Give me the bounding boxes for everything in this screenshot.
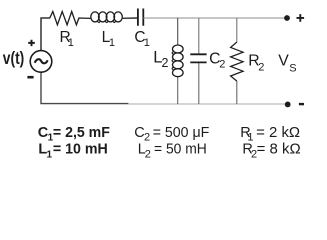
svg-text:V: V [278,53,289,70]
svg-text:= 50 mH: = 50 mH [154,142,207,158]
svg-text:= 2 kΩ: = 2 kΩ [256,125,300,141]
voltage source sine tilde [35,59,48,63]
value R2 = 8 kOhm [242,142,300,161]
node: + output terminal [284,15,290,21]
wire: L2 top stub [177,18,179,45]
value L2 = 50 mH [138,142,207,161]
minus sign at output [299,103,304,105]
wire: C2 bottom stub [198,62,200,104]
resistor R1 zigzag [50,12,91,25]
wire: left vertical top (source to top rail) [41,18,50,51]
inductor L2 coil [173,45,184,53]
svg-text:1: 1 [109,37,115,49]
label VS [278,53,296,75]
source minus sign [27,76,33,79]
svg-text:= 10 mH: = 10 mH [53,142,108,158]
wire: bottom rail gray [128,103,286,105]
svg-text:1: 1 [47,150,53,161]
node: - output terminal [285,102,291,108]
svg-text:= 2,5 mF: = 2,5 mF [53,125,110,141]
label R2 [248,53,264,74]
label C1 [134,29,149,49]
value C2 = 500 uF [134,125,209,144]
svg-text:1: 1 [68,37,74,49]
wire: left vertical bottom and black bottom rail [41,72,129,103]
svg-text:v(t): v(t) [3,49,24,68]
value C1 = 2,5 mF [38,125,110,144]
label L1 [102,29,115,49]
svg-text:2: 2 [258,62,264,74]
label C2 [209,51,225,71]
wire: R2 top stub [236,18,238,42]
capacitor C2 plates [190,54,206,62]
source plus sign [28,40,35,46]
svg-text:2: 2 [219,58,225,70]
value R1 = 2 kOhm [240,125,300,144]
inductor L1 coil [91,12,99,22]
svg-text:= 500 μF: = 500 μF [153,125,210,141]
resistor R2 zigzag [231,42,244,81]
value L1 = 10 mH [38,142,107,161]
label R1 [60,29,74,49]
svg-text:= 8 kΩ: = 8 kΩ [257,142,301,158]
wire: L2 bottom stub [177,77,179,104]
svg-text:2: 2 [162,56,169,70]
svg-text:S: S [289,62,296,74]
svg-text:1: 1 [144,37,150,49]
wire: R2 bottom stub [236,81,238,104]
capacitor C1 plates [138,9,143,26]
svg-text:2: 2 [145,149,151,161]
voltage source circle [30,51,52,73]
wire: C2 top stub [198,18,200,54]
wire: top rail gray C1 to + terminal [143,17,285,19]
label L2 [153,49,168,70]
plus sign at output [297,14,305,22]
wire: L1 to C1 [123,17,138,19]
